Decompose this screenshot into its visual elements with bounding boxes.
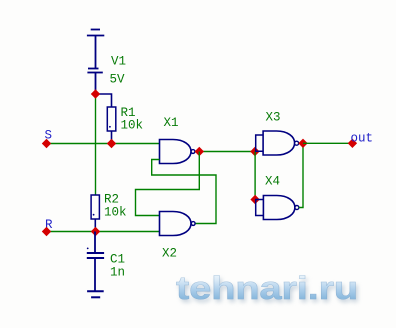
svg-text:X3: X3 — [266, 111, 281, 125]
wire X4 output to X3 output — [299, 143, 303, 207]
nand gate X4 — [263, 196, 299, 220]
svg-text:1n: 1n — [110, 266, 125, 280]
svg-text:V1: V1 — [111, 55, 126, 69]
wire X3 output stub — [299, 142, 303, 144]
node X3 input junction — [250, 147, 259, 156]
node R2 C1 junction — [91, 227, 100, 236]
wire X1 output to X2 input (cross coupling) — [136, 152, 200, 216]
node R terminal — [42, 227, 51, 236]
wire X1 output to X3 inputs — [195, 151, 255, 153]
wire X3 input to X4 input — [254, 152, 256, 200]
node R1 bottom junction — [107, 139, 116, 148]
battery V1 — [87, 30, 104, 95]
svg-text:X1: X1 — [164, 116, 179, 130]
wire battery to R2 (vertical main) — [95, 94, 97, 195]
node X4 input junction — [250, 195, 259, 204]
node out terminal — [348, 139, 357, 148]
ground — [87, 291, 104, 297]
wire to out terminal — [303, 142, 352, 144]
node X1 output — [195, 147, 204, 156]
resistor R1 — [96, 94, 116, 144]
svg-text:R2: R2 — [104, 193, 119, 207]
wire R to X2 input — [47, 231, 160, 233]
wire S to X1 input — [47, 143, 160, 145]
X4 input tie bar — [256, 200, 264, 216]
nand gate X3 — [263, 131, 299, 155]
node X3 output junction — [298, 139, 307, 148]
wire X2 output to X1 input (cross coupling) — [152, 160, 216, 224]
nand gate X1 — [160, 140, 195, 164]
svg-text:10k: 10k — [104, 206, 127, 220]
capacitor C1 — [87, 232, 104, 292]
svg-text:X2: X2 — [162, 247, 177, 261]
X3 input tie bar — [256, 135, 263, 151]
nand gate X2 — [160, 212, 196, 236]
resistor R2 — [91, 195, 99, 232]
svg-text:5V: 5V — [110, 73, 126, 87]
node battery junction — [91, 89, 100, 98]
watermark tehnari.ru — [176, 271, 358, 307]
svg-text:X4: X4 — [265, 175, 280, 189]
svg-text:out: out — [351, 132, 374, 146]
svg-text:10k: 10k — [121, 119, 144, 133]
node S terminal — [42, 139, 51, 148]
svg-text:C1: C1 — [110, 253, 125, 267]
